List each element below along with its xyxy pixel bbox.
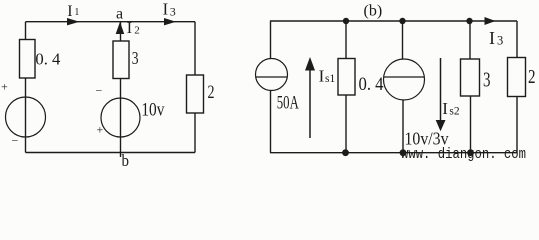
svg-text:I: I	[67, 3, 72, 20]
wire: left branch top (circuit b)	[270, 21, 272, 59]
resistor 2 (right branch, circuit a)	[187, 75, 204, 113]
junction dot: top of 3 branch (b)	[466, 18, 472, 24]
svg-text:b: b	[122, 151, 130, 168]
svg-text:www. diangon. com: www. diangon. com	[401, 146, 526, 163]
wire: source branch bottom (b)	[402, 100, 404, 153]
wire: right branch top (circuit a)	[194, 22, 196, 75]
wire: right edge top (circuit b)	[516, 21, 518, 58]
wire: 3 branch bottom (b)	[470, 96, 472, 153]
svg-text:3: 3	[132, 48, 139, 68]
svg-text:0. 4: 0. 4	[35, 50, 60, 69]
svg-text:2: 2	[208, 82, 215, 103]
wire: right branch bottom (circuit a)	[194, 113, 196, 153]
junction dot: top of 0.4 branch (b)	[343, 18, 349, 24]
wire: left branch top (circuit a)	[25, 22, 27, 40]
resistor 3 (circuit b)	[461, 59, 480, 96]
svg-text:s1: s1	[325, 73, 335, 85]
svg-text:2: 2	[134, 25, 140, 37]
resistor 0.4 (left branch, circuit a)	[20, 40, 36, 79]
wire: 3 branch top (b)	[469, 21, 471, 59]
current arrow Is1	[309, 68, 311, 138]
current arrow I1	[67, 18, 80, 25]
current arrow I2	[116, 22, 125, 34]
junction dot: bottom of source branch (b)	[400, 149, 407, 156]
svg-text:−: −	[96, 84, 103, 98]
svg-text:I: I	[489, 28, 495, 48]
current arrow I3 (circuit b)	[485, 17, 496, 25]
current arrow I3 (circuit a)	[164, 18, 176, 25]
wire: middle branch through source to node b tick (circuit a)	[120, 79, 122, 158]
svg-text:I: I	[163, 0, 169, 19]
svg-text:+: +	[1, 80, 8, 94]
svg-text:+: +	[97, 123, 104, 137]
svg-text:I: I	[319, 67, 325, 86]
svg-text:2: 2	[528, 66, 536, 88]
svg-text:3: 3	[170, 5, 176, 19]
voltage source circle (left branch, circuit a)	[6, 97, 46, 137]
junction dot: bottom of 3 branch (b)	[467, 149, 474, 156]
svg-text:a: a	[116, 6, 123, 23]
current source 10v/3v bar	[384, 76, 425, 78]
wire: source branch top (b)	[402, 21, 404, 59]
wire: middle branch top (circuit a)	[120, 22, 122, 41]
current arrow Is2	[440, 58, 442, 120]
wire: right edge bottom (circuit b)	[516, 97, 518, 153]
svg-text:I: I	[442, 99, 448, 118]
voltage source 10v circle (middle branch, circuit a)	[101, 98, 140, 137]
svg-text:I: I	[127, 20, 132, 37]
wire: left branch through source to bottom (circuit a)	[25, 78, 27, 153]
svg-text:0. 4: 0. 4	[359, 74, 384, 95]
wire: bottom rail node b (circuit a)	[26, 152, 196, 154]
wire: top rail (circuit b)	[270, 20, 517, 22]
resistor 3 (middle branch, circuit a)	[113, 41, 129, 79]
svg-text:1: 1	[74, 7, 79, 18]
svg-text:−: −	[12, 133, 19, 147]
junction dot: top of source branch (b)	[399, 18, 405, 24]
wire: top rail node a (circuit a)	[26, 21, 196, 23]
resistor 0.4 (circuit b)	[338, 59, 355, 96]
junction dot: bottom of 0.4 branch (b)	[342, 149, 349, 156]
wire: left branch bottom (circuit b)	[270, 91, 272, 153]
current source 50A circle	[256, 59, 288, 91]
svg-text:50A: 50A	[277, 93, 299, 114]
svg-text:s2: s2	[449, 106, 459, 118]
svg-text:(b): (b)	[364, 3, 383, 20]
svg-text:3: 3	[497, 34, 503, 48]
current source 10v/3v circle	[384, 59, 425, 100]
svg-text:10v: 10v	[141, 100, 164, 121]
wire: 0.4 branch bottom (b)	[345, 95, 347, 153]
wire: 0.4 branch top (b)	[345, 21, 347, 59]
wire: bottom rail (circuit b)	[270, 152, 517, 154]
svg-text:3: 3	[483, 68, 491, 92]
resistor 2 (circuit b)	[508, 58, 526, 97]
current source 50A bar	[256, 76, 288, 78]
